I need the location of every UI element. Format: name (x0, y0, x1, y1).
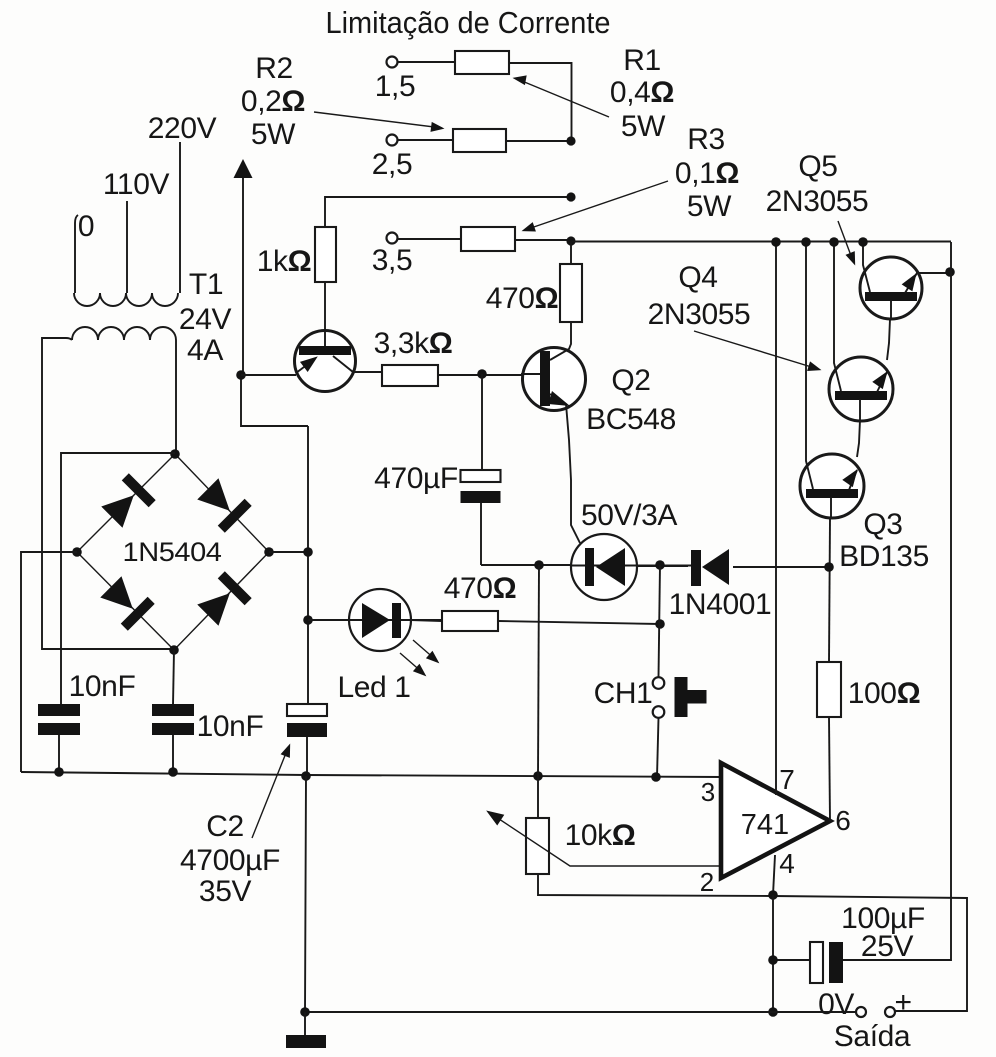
transistor Q5 circle (860, 257, 922, 319)
label T1 24V 4A (179, 268, 232, 367)
potentiometer 10k body (526, 818, 549, 874)
wire led branch (308, 619, 349, 621)
resistor 3,3k body (382, 365, 438, 386)
svg-text:7: 7 (779, 764, 795, 795)
label Q3 BD135 (839, 508, 929, 573)
wire +V vertical x308 (307, 426, 309, 704)
wire 1k to Q1 base (324, 282, 326, 347)
wire bus to 470 top (570, 241, 572, 264)
svg-text:10nF: 10nF (69, 670, 136, 703)
svg-text:110V: 110V (103, 168, 170, 201)
pointer arrow R2 (314, 112, 445, 134)
junction c2cap bus (301, 771, 311, 781)
wire R3 to bus (515, 239, 571, 241)
svg-text:Q4: Q4 (678, 261, 717, 294)
junction ground node (300, 1007, 310, 1017)
svg-text:Q5: Q5 (798, 150, 837, 183)
junction switch branch (655, 619, 665, 629)
resistor R2 0,2ohm body (453, 129, 506, 152)
svg-text:220V: 220V (148, 112, 217, 145)
transistor Q4 base bar (835, 391, 887, 400)
svg-text:2N3055: 2N3055 (766, 185, 869, 218)
junction x308 led branch (303, 615, 313, 625)
wire bridge left to ground bus (21, 552, 77, 772)
capacitor 10nF no1 (38, 704, 80, 772)
junction ch1 bus (651, 772, 661, 782)
wire 0 tap (75, 215, 78, 293)
svg-text:2,5: 2,5 (372, 148, 413, 181)
svg-text:R2: R2 (255, 52, 293, 85)
wire right +V rail (843, 242, 951, 960)
junction c1 bus (54, 767, 64, 777)
wire 470uF branch (481, 374, 483, 470)
capacitor 10nF no2 (152, 704, 194, 772)
junction bridge bottom (169, 645, 179, 655)
svg-text:C2: C2 (206, 810, 244, 843)
svg-text:5W: 5W (687, 190, 732, 223)
resistor 470 top body (560, 264, 582, 322)
junction 0V rail (768, 1007, 778, 1017)
resistor R3 0,1ohm body (461, 227, 515, 251)
junction Q2 base node (477, 369, 487, 379)
junction 1N4001 Q3 (824, 562, 834, 572)
node terminal 1,5 (375, 57, 416, 104)
svg-text:BC548: BC548 (586, 403, 676, 436)
junction bridge left (72, 547, 82, 557)
svg-text:+: + (894, 986, 911, 1019)
junction pot feed (534, 560, 544, 570)
label Q2 BC548 (586, 364, 676, 436)
bridge rectifier 1N5404 diamond (77, 454, 269, 650)
junction Q4 collector bus (829, 237, 839, 247)
wire R1 to bus (509, 63, 572, 141)
junction x308 bridge right (303, 547, 313, 557)
bridge diode top-right (194, 475, 251, 532)
junction bridge right (264, 547, 274, 557)
bridge diode bottom-left (97, 573, 154, 630)
svg-text:5W: 5W (621, 110, 666, 143)
junction pin4 rail (768, 890, 778, 900)
svg-text:470Ω: 470Ω (486, 282, 559, 315)
svg-text:0: 0 (78, 210, 94, 243)
svg-text:4700µF: 4700µF (180, 844, 280, 877)
svg-text:741: 741 (741, 809, 789, 841)
svg-text:3,3kΩ: 3,3kΩ (374, 327, 453, 360)
terminal saida plus (885, 1007, 895, 1017)
potentiometer 10k arrow (483, 805, 722, 866)
bridge diode bottom-right (194, 571, 251, 628)
pointer arrow R1 (512, 73, 609, 117)
junction pot top bus (533, 771, 543, 781)
svg-text:100Ω: 100Ω (848, 677, 921, 710)
switch CH1 actuator (675, 677, 707, 717)
junction bus-R3 (566, 236, 575, 245)
svg-text:0V: 0V (818, 988, 854, 1021)
diode 50V/3A symbol (585, 548, 625, 586)
diode 1N4001 symbol (691, 549, 829, 586)
wire 220V tap (179, 142, 181, 293)
junction bridge top (170, 449, 180, 459)
transistor Q3 circle (800, 454, 864, 518)
wire terminal2,5 to R2 (398, 139, 453, 141)
wire terminal3,5 to R3 (398, 238, 461, 240)
wire plus terminal to rail (895, 1010, 967, 1012)
pointer arrow C2 (252, 742, 295, 838)
node terminal 3,5 (372, 233, 413, 278)
wire bridge bottom to C2b (173, 650, 174, 705)
resistor 470 led body (442, 611, 498, 631)
wire diode node to pot bus (538, 565, 539, 776)
svg-text:CH1: CH1 (594, 677, 653, 710)
transistor Q2 emitter arrow (548, 391, 580, 543)
junction Q5 emitter rail (945, 267, 955, 277)
wire diode to 1N4001 (638, 565, 688, 567)
junction c2 bus (168, 767, 178, 777)
wire secondary left end down (42, 338, 174, 649)
transistor Q3 collector wire (806, 242, 813, 489)
label Q5 2N3055 (766, 150, 869, 218)
wire 100ohm to Q3 base (829, 518, 830, 662)
capacitor C2 4700uF (287, 704, 327, 776)
svg-text:1kΩ: 1kΩ (257, 245, 312, 278)
wire bridge top to C1 (61, 453, 175, 704)
transistor Q5 emitter arrow (902, 270, 950, 293)
svg-text:Saída: Saída (834, 1020, 911, 1053)
svg-text:R3: R3 (687, 123, 725, 156)
diode 50V/3A circle (571, 534, 637, 600)
opamp 741 triangle (721, 763, 830, 878)
svg-text:24V: 24V (179, 303, 232, 336)
label Q4 2N3055 (648, 261, 751, 331)
led Led1 symbol (362, 603, 401, 638)
capacitor 470uF (461, 470, 501, 565)
transformer T1 primary winding (74, 293, 178, 306)
svg-text:1N5404: 1N5404 (123, 537, 222, 567)
transistor Q4 circle (829, 357, 893, 421)
svg-text:470µF: 470µF (374, 462, 458, 495)
svg-text:1N4001: 1N4001 (669, 588, 772, 621)
resistor R1 0,4ohm body (455, 51, 509, 74)
wire CH1 to pin3 bus (657, 718, 659, 777)
transistor Q2 base bar (540, 351, 550, 406)
svg-text:10nF: 10nF (197, 710, 264, 743)
pointer arrow R3 (520, 181, 668, 236)
wire pot bottom to rail (538, 874, 967, 1011)
led light arrows (400, 640, 443, 680)
wire 470uF node to diode (481, 564, 570, 566)
bridge diode top-left (98, 473, 155, 530)
ground symbol (286, 1012, 326, 1048)
junction emitter node (236, 370, 246, 380)
arrow +V up (234, 159, 253, 375)
svg-text:2: 2 (700, 867, 714, 897)
junction diode-switch node (655, 560, 665, 570)
svg-text:1,5: 1,5 (375, 70, 416, 103)
svg-text:0,4Ω: 0,4Ω (610, 76, 674, 109)
terminal 0V (856, 1007, 866, 1017)
junction 100uF left (768, 955, 778, 965)
transistor Q5 base wire down (887, 319, 890, 360)
wire pot top (537, 776, 539, 819)
svg-text:50V/3A: 50V/3A (581, 499, 677, 532)
svg-text:25V: 25V (861, 930, 914, 963)
wire opamp out to 100ohm (829, 717, 830, 821)
transformer T1 secondary winding (72, 327, 176, 340)
wire emitter to Q1 (241, 374, 296, 376)
svg-text:4A: 4A (187, 334, 223, 367)
transistor Q5 collector wire (863, 242, 870, 292)
transistor Q1 emitter arrow (296, 351, 322, 373)
switch CH1 terminals (653, 677, 665, 718)
wire ground to 0V rail (305, 776, 856, 1012)
wire bridge right to +node (269, 551, 308, 553)
transistor Q1 collector (333, 356, 382, 372)
resistor 1k body (315, 227, 336, 282)
pointer arrow Q5 (838, 221, 860, 267)
transistor Q1 base bar (299, 346, 351, 355)
wire main top bus to right (571, 241, 951, 243)
svg-text:0,1Ω: 0,1Ω (675, 157, 739, 190)
transistor Q1 pnp circle (295, 331, 356, 392)
wire led to 470 (411, 620, 442, 621)
wire 110V tap (126, 201, 128, 293)
label 100uF 25V (841, 902, 925, 963)
wire pin4 down (773, 855, 775, 895)
junction Q3 collector bus (801, 237, 811, 247)
wire 3,3k to Q2 base (438, 374, 540, 376)
junction bus-R2 (566, 136, 575, 145)
svg-text:6: 6 (835, 805, 851, 836)
junction bus-1k (566, 192, 575, 201)
svg-text:Q2: Q2 (611, 364, 650, 397)
svg-text:Limitação de Corrente: Limitação de Corrente (326, 6, 611, 40)
wire ground bus bottom-left to opamp (21, 772, 722, 777)
wire R2 to bus (506, 140, 571, 142)
transistor Q5 base bar (865, 292, 917, 301)
label C2 4700uF 35V (180, 810, 280, 908)
label R3 (675, 123, 739, 223)
svg-text:4: 4 (779, 848, 795, 879)
transistor Q4 base wire down (857, 420, 860, 457)
label R1 (610, 44, 674, 143)
svg-text:10kΩ: 10kΩ (565, 819, 636, 852)
svg-text:Led 1: Led 1 (337, 671, 410, 704)
led Led1 circle (349, 589, 411, 651)
wire 1k branch from bus (325, 197, 571, 227)
svg-text:35V: 35V (199, 875, 252, 908)
svg-text:R1: R1 (623, 44, 661, 77)
wire 470led to switch branch (498, 621, 660, 624)
transistor Q2 collector (550, 322, 571, 360)
wire diode node down to CH1 (659, 565, 661, 677)
pointer arrow Q4 (694, 331, 823, 375)
transistor Q4 collector wire (834, 242, 841, 391)
transistor Q4 emitter arrow (872, 368, 893, 392)
svg-text:5W: 5W (251, 118, 296, 151)
resistor 100 body (817, 662, 841, 717)
transistor Q3 emitter arrow (842, 466, 863, 490)
svg-text:2N3055: 2N3055 (648, 298, 751, 331)
capacitor 100uF (773, 942, 843, 983)
svg-text:0,2Ω: 0,2Ω (241, 85, 305, 118)
wire emitter corner to x308 (241, 375, 308, 426)
wire terminal1,5 to R1 (398, 61, 455, 63)
svg-text:470Ω: 470Ω (444, 572, 517, 605)
transistor Q2 circle (523, 348, 586, 411)
label R2 (241, 52, 305, 151)
junction pin7 bus (771, 237, 781, 247)
svg-text:3: 3 (701, 777, 715, 807)
svg-text:BD135: BD135 (839, 540, 929, 573)
wire secondary right end to bridge top (175, 340, 177, 454)
svg-text:Q3: Q3 (863, 508, 902, 541)
junction Q5 collector bus (858, 237, 868, 247)
transistor Q3 base bar (806, 489, 858, 498)
wire pin4 rail down to 0V rail (772, 895, 774, 1012)
wire pin7 from bus (775, 242, 777, 795)
svg-text:3,5: 3,5 (372, 244, 413, 277)
svg-text:T1: T1 (189, 268, 223, 301)
node terminal 2,5 (372, 135, 413, 182)
